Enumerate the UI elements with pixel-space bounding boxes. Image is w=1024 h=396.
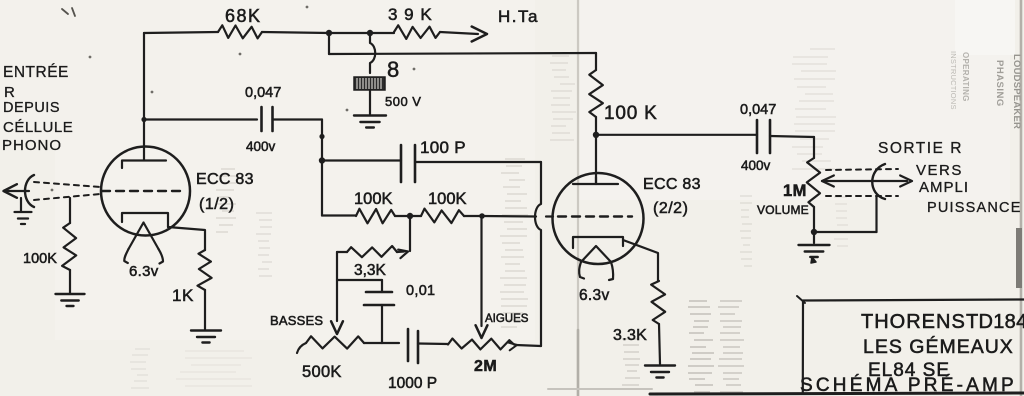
ground below volume bbox=[799, 244, 830, 246]
resistor 100K anode V2 bbox=[595, 53, 597, 70]
wire 3.3K to ground bbox=[659, 324, 660, 364]
svg-text:PUISSANCE: PUISSANCE bbox=[927, 200, 1022, 216]
svg-text:100K: 100K bbox=[354, 190, 393, 208]
svg-text:AIGUES: AIGUES bbox=[485, 313, 529, 325]
wire bass branch down bbox=[336, 252, 338, 321]
wire C out to volume pot bbox=[770, 136, 814, 137]
svg-text:PHASING: PHASING bbox=[994, 60, 1005, 107]
wire V1 plate to C 0.047 bbox=[144, 118, 257, 120]
input shield dashed lower bbox=[34, 194, 100, 200]
wire V2 cathode to 3.3K bbox=[623, 240, 658, 281]
svg-text:AMPLI: AMPLI bbox=[919, 179, 969, 196]
svg-text:1K: 1K bbox=[172, 286, 194, 305]
svg-text:400v: 400v bbox=[741, 158, 771, 173]
svg-text:R: R bbox=[4, 84, 16, 101]
wire grid bus left segment bbox=[322, 214, 356, 216]
output shield dashed upper bbox=[826, 169, 898, 170]
potentiometer 1M volume bbox=[807, 158, 820, 207]
resistor 1K bbox=[198, 250, 212, 290]
svg-text:6.3v: 6.3v bbox=[579, 287, 610, 304]
potentiometer 500K basses bbox=[297, 343, 306, 353]
volume wiper arrow bbox=[822, 176, 834, 187]
svg-text:VERS: VERS bbox=[916, 162, 963, 179]
V2 grid dashed line bbox=[558, 215, 632, 217]
svg-text:6.3v: 6.3v bbox=[129, 263, 159, 280]
wire 100K to ground bbox=[69, 270, 71, 293]
svg-text:1M: 1M bbox=[783, 182, 807, 200]
svg-text:CÉLLULE: CÉLLULE bbox=[3, 119, 73, 136]
svg-text:THORENS: THORENS bbox=[861, 311, 966, 333]
resistor 3.3K feedback bbox=[337, 251, 347, 253]
wire plate V1 up to B+ rail bbox=[143, 33, 145, 160]
svg-text:SORTIE R: SORTIE R bbox=[878, 140, 963, 157]
input arrow bbox=[4, 184, 17, 198]
resistor 100K grid leak bbox=[62, 223, 76, 270]
node between 100Ks bbox=[395, 215, 421, 217]
V1 plate bar bbox=[122, 161, 166, 169]
ground below 100K bbox=[56, 293, 85, 295]
svg-text:68K: 68K bbox=[225, 6, 262, 26]
capacitor 8uF electrolytic bbox=[354, 77, 385, 90]
svg-text:H.Ta: H.Ta bbox=[498, 7, 539, 26]
wire node A down bbox=[328, 33, 330, 54]
V2 cathode bracket bbox=[573, 237, 623, 248]
wire V2 plate node to C 0.047 out bbox=[596, 134, 757, 136]
svg-text:OPERATING: OPERATING bbox=[961, 52, 970, 102]
treble wiper wire bbox=[480, 216, 482, 326]
wire node A to node B bbox=[329, 32, 370, 34]
wire 1M to ground node bbox=[813, 207, 815, 243]
treble wiper arrow bbox=[476, 325, 488, 338]
wire 100P to treble bus bbox=[415, 161, 541, 163]
output jack crescent bbox=[872, 164, 885, 199]
wire aigues node to grid hop bbox=[482, 215, 536, 218]
resistor 3.3K cathode bbox=[651, 281, 665, 324]
svg-text:(2/2): (2/2) bbox=[653, 200, 688, 217]
wire node B hop over HT line bbox=[370, 33, 375, 73]
wire 100K2 to aigues node bbox=[464, 215, 482, 217]
wire HT line to R 100K anode V2 bbox=[329, 53, 596, 54]
wire V1 cathode to 1K bbox=[168, 227, 205, 250]
wire to C 0.01 bbox=[337, 279, 382, 281]
title box border bbox=[803, 300, 1024, 394]
resistor 100K grid leak wire bbox=[69, 198, 71, 223]
junction blob bbox=[319, 134, 324, 139]
svg-text:100 K: 100 K bbox=[604, 103, 658, 124]
input jack crescent bbox=[25, 175, 34, 207]
svg-text:8: 8 bbox=[387, 57, 399, 82]
wire 8uF to ground bbox=[369, 90, 371, 114]
svg-text:0,01: 0,01 bbox=[406, 283, 435, 299]
triode V2 ECC83 2/2 envelope bbox=[553, 173, 644, 264]
HT supply arrow bbox=[472, 27, 487, 42]
ground below 3.3K cathode bbox=[645, 364, 675, 366]
svg-text:VOLUME: VOLUME bbox=[757, 203, 809, 217]
resistor 100K feedback 1 bbox=[356, 209, 395, 224]
ground below 1K bbox=[191, 329, 221, 331]
svg-text:LES GÉMEAUX: LES GÉMEAUX bbox=[863, 335, 1014, 358]
wire junction down to 3.3K bbox=[409, 216, 411, 251]
wire node B to 39K bbox=[370, 32, 394, 34]
bass wiper arrow bbox=[331, 321, 343, 334]
svg-text:500 V: 500 V bbox=[385, 94, 421, 109]
potentiometer 2M aigues bbox=[448, 339, 514, 350]
resistor 100K feedback 2 bbox=[421, 209, 464, 224]
svg-text:(1/2): (1/2) bbox=[199, 196, 234, 213]
wire treble bus down with hop bbox=[535, 162, 541, 346]
V1 grid dashed line bbox=[102, 190, 181, 192]
ground below 8uF bbox=[354, 114, 386, 116]
wire down to tone network bbox=[321, 120, 323, 216]
wire 39K to HT arrow bbox=[440, 32, 478, 34]
capacitor 0.01 bbox=[366, 291, 392, 294]
output shield return wire bbox=[875, 196, 877, 232]
V1 heater filament bbox=[129, 223, 159, 250]
svg-text:100K: 100K bbox=[428, 190, 467, 208]
svg-text:INSTRUCTIONS: INSTRUCTIONS bbox=[949, 51, 958, 110]
capacitor 100P bbox=[400, 145, 403, 182]
svg-text:SCHÉMA PRÉ-AMP: SCHÉMA PRÉ-AMP bbox=[800, 375, 1017, 396]
node B junction bbox=[367, 30, 373, 36]
svg-text:1000 P: 1000 P bbox=[388, 375, 437, 392]
shield ground at input bbox=[20, 198, 22, 211]
output arrow bbox=[900, 176, 912, 187]
svg-text:0,047: 0,047 bbox=[245, 85, 281, 101]
wire into V2 grid bbox=[546, 215, 553, 217]
wire 68K to node A bbox=[262, 32, 329, 33]
svg-text:BASSES: BASSES bbox=[270, 313, 323, 328]
svg-text:3,3K: 3,3K bbox=[354, 262, 387, 279]
svg-text:ENTRÉE: ENTRÉE bbox=[3, 64, 69, 81]
V1 cathode bracket bbox=[122, 213, 168, 227]
svg-text:LOUDSPEAKER: LOUDSPEAKER bbox=[1011, 54, 1022, 129]
svg-text:2M: 2M bbox=[474, 358, 497, 375]
triode V1 ECC83 1/2 envelope bbox=[101, 147, 190, 236]
V2 heater filament bbox=[581, 246, 611, 262]
svg-text:DEPUIS: DEPUIS bbox=[3, 100, 60, 116]
svg-text:TD184: TD184 bbox=[966, 311, 1024, 333]
svg-text:3 9 K: 3 9 K bbox=[388, 5, 433, 24]
svg-text:PHONO: PHONO bbox=[2, 137, 62, 154]
svg-text:500K: 500K bbox=[302, 363, 342, 381]
resistor 39K bbox=[394, 25, 440, 39]
wire 500K to 1000P bbox=[364, 342, 399, 344]
capacitor 0.047 400V stage1 bbox=[260, 107, 263, 131]
svg-text:100 P: 100 P bbox=[420, 138, 466, 157]
V2 plate bar bbox=[573, 177, 618, 184]
wire to C 100P bbox=[322, 159, 401, 161]
node A junction bbox=[326, 30, 332, 36]
svg-text:3.3K: 3.3K bbox=[613, 327, 647, 344]
svg-text:100K: 100K bbox=[23, 251, 57, 267]
node 100P junction bbox=[319, 157, 325, 163]
resistor 68K bbox=[218, 25, 262, 38]
wire 1000P to 2M bbox=[418, 342, 448, 345]
output shield dashed lower bbox=[826, 195, 898, 197]
capacitor 1000P bbox=[407, 329, 410, 361]
svg-text:400v: 400v bbox=[246, 139, 276, 154]
wire 100K anode to plate bbox=[595, 117, 597, 184]
svg-text:ECC 83: ECC 83 bbox=[196, 171, 254, 188]
svg-text:0,047: 0,047 bbox=[740, 102, 776, 118]
wire 0.01 to bass line bbox=[381, 305, 383, 343]
wire 1K to ground bbox=[204, 290, 206, 329]
input shield dashed upper bbox=[34, 182, 100, 187]
capacitor 0.047 400V output bbox=[756, 120, 759, 153]
bottom border line bbox=[650, 393, 1024, 394]
svg-text:ECC 83: ECC 83 bbox=[643, 176, 701, 193]
